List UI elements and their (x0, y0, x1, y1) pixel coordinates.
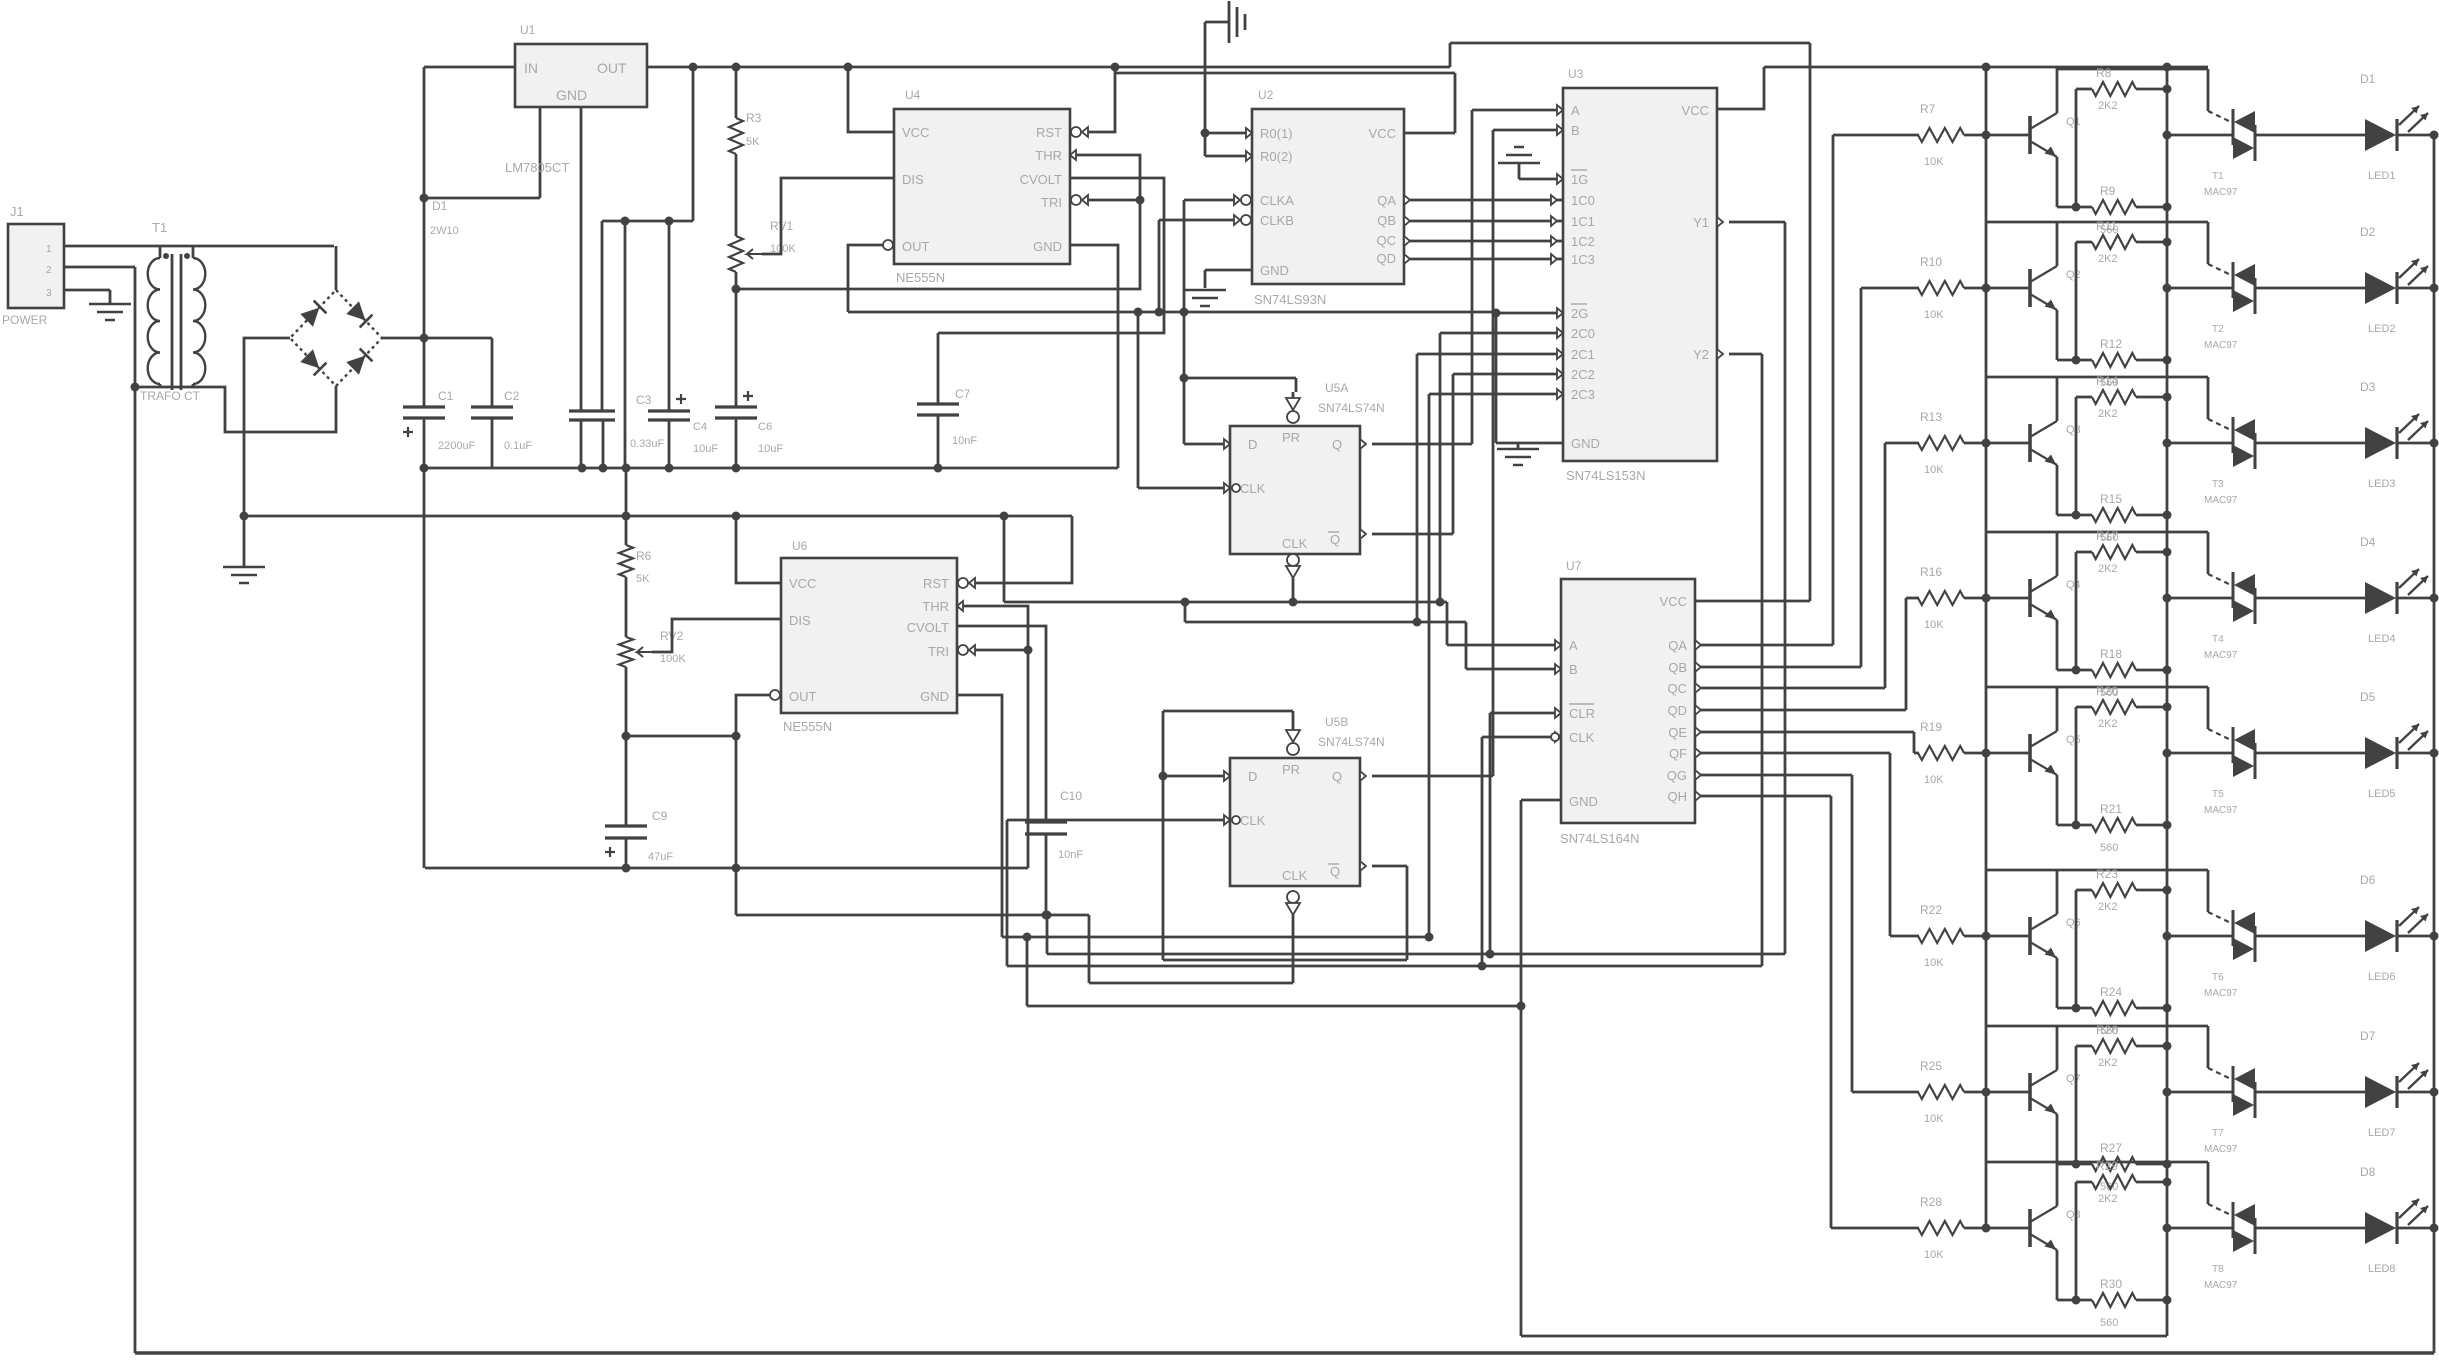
wire bus to triac row 6 (2167, 935, 2233, 938)
svg-text:10K: 10K (1924, 619, 1944, 631)
svg-text:QB: QB (1377, 213, 1396, 228)
junction R8 bus (2163, 85, 2172, 94)
wire OUT U6 (736, 690, 780, 915)
clock line y312 (848, 311, 1496, 314)
wire bus to triac row 8 (2167, 1227, 2233, 1230)
svg-text:10nF: 10nF (1058, 849, 1083, 861)
wire 2C2 (1453, 369, 1563, 379)
resistor R16 base row 4 (1918, 565, 1964, 631)
svg-text:A: A (1571, 103, 1580, 118)
capacitor C9 (605, 736, 673, 868)
transistor Q6 (2030, 914, 2081, 958)
wire emitter row 4 (2057, 620, 2092, 670)
svg-text:R23: R23 (2096, 867, 2118, 881)
wire GND U3 (1496, 442, 1563, 445)
U5A D wire (1184, 439, 1230, 449)
wire collector to gate row 8 (2057, 1162, 2208, 1204)
svg-text:D2: D2 (2360, 225, 2376, 239)
wire collector row 2 (1986, 222, 2057, 266)
wire collector to gate row 3 (2057, 377, 2208, 419)
line y960 (1163, 959, 1407, 962)
svg-text:B: B (1571, 123, 1580, 138)
svg-text:CLK: CLK (1282, 536, 1308, 551)
wire GND U7 (1521, 799, 1561, 802)
wire LED to rail row 6 (2397, 935, 2434, 938)
svg-text:T2: T2 (2212, 324, 2224, 335)
wire collector to gate row 1 (2057, 69, 2208, 111)
junction triac feed row 8 (2163, 1224, 2172, 1233)
wire R23 leads (2076, 890, 2167, 1008)
vertical x1004 (1003, 516, 1006, 602)
resistor R13 base row 3 (1918, 410, 1964, 476)
svg-text:1C1: 1C1 (1571, 214, 1595, 229)
flip-flop U5B box (1230, 758, 1360, 886)
svg-text:R22: R22 (1920, 903, 1942, 917)
svg-text:R13: R13 (1920, 410, 1942, 424)
resistor R25 base row 7 (1918, 1059, 1964, 1125)
wire J1 pin3 to ground (64, 290, 110, 304)
svg-text:2K2: 2K2 (2098, 1193, 2118, 1205)
vertical x1493 Q2 to B (1492, 130, 1495, 776)
junctions on y312 (1134, 308, 1189, 317)
svg-text:D8: D8 (2360, 1165, 2376, 1179)
svg-text:PR: PR (1282, 430, 1300, 445)
wire R11 leads (2076, 242, 2167, 360)
junction TRI-THR (1136, 196, 1145, 205)
timer U6 label (783, 539, 832, 734)
junction R17 bus (2163, 548, 2172, 557)
junction VCC U4 (844, 63, 853, 72)
svg-text:R20: R20 (2096, 684, 2118, 698)
junction triac feed row 1 (2163, 131, 2172, 140)
svg-text:SN74LS153N: SN74LS153N (1566, 468, 1646, 483)
junction R27 bus (2072, 1160, 2172, 1169)
line y966 (1007, 965, 1762, 968)
line y602 (1004, 601, 1447, 604)
svg-text:T4: T4 (2212, 634, 2224, 645)
junction R0 (1201, 129, 1210, 138)
junction x1027 y937 (1023, 933, 1032, 942)
svg-text:LED3: LED3 (2368, 478, 2396, 490)
line y73 (1115, 72, 1455, 75)
transistor Q4 (2030, 576, 2081, 620)
svg-text:100K: 100K (660, 653, 686, 665)
svg-text:Y2: Y2 (1693, 347, 1709, 362)
wire R0(1) (1205, 128, 1252, 138)
wire bridge left to ground rail (244, 338, 290, 567)
wire R10 to base (1964, 287, 2030, 290)
wire QC (1404, 236, 1563, 246)
svg-text:U2: U2 (1258, 88, 1274, 102)
wire collector to gate row 5 (2057, 687, 2208, 729)
junction rail B left (240, 512, 249, 521)
svg-text:CVOLT: CVOLT (907, 620, 949, 635)
wire R29 leads (2076, 1182, 2167, 1300)
junction pot1 bottom (732, 285, 741, 294)
junction LED bus top (2163, 63, 2172, 72)
line y954 (1047, 953, 1785, 956)
wire R12 lead (2136, 359, 2167, 362)
bridge diode lower-left (300, 349, 326, 375)
svg-text:Q: Q (1330, 864, 1340, 879)
wire collector to gate row 2 (2057, 222, 2208, 264)
junction R29 bus (2163, 1178, 2172, 1187)
wire bus to triac row 3 (2167, 442, 2233, 445)
wire y198 to 540 (424, 107, 540, 198)
svg-text:R30: R30 (2100, 1277, 2122, 1291)
svg-text:MAC97: MAC97 (2204, 187, 2238, 198)
LED D5 (2360, 690, 2428, 800)
junction R23 bus (2163, 886, 2172, 895)
triac T4 (2204, 572, 2255, 661)
junction y221 riser (689, 63, 698, 72)
svg-text:CLKB: CLKB (1260, 213, 1294, 228)
svg-text:LED4: LED4 (2368, 633, 2396, 645)
vertical x1205 top (1204, 22, 1207, 156)
junction triac feed row 7 (2163, 1088, 2172, 1097)
svg-text:10nF: 10nF (952, 435, 977, 447)
potentiometer RV1 (729, 219, 796, 272)
svg-text:D: D (1248, 437, 1257, 452)
regulator pin labels (524, 60, 627, 103)
junction at 424 338 (420, 334, 429, 343)
gate lead row 4 (2208, 574, 2233, 586)
svg-text:R19: R19 (1920, 720, 1942, 734)
resistor R10 base row 2 (1918, 255, 1964, 321)
svg-text:C10: C10 (1060, 789, 1082, 803)
svg-text:D1: D1 (2360, 72, 2376, 86)
triac T2 (2204, 262, 2255, 351)
line y983 (1089, 982, 1293, 985)
svg-text:U6: U6 (792, 539, 808, 553)
U5B PR symbol (1286, 730, 1300, 755)
junction x1047 y915 (1043, 911, 1052, 920)
junction 2C3 y937 (1425, 933, 1434, 942)
resistor R17 collector row 4 (2092, 529, 2136, 575)
gate lead row 6 (2208, 912, 2233, 924)
wire emitter row 2 (2057, 310, 2092, 360)
ground at counter (1184, 290, 1226, 306)
wire CVOLT U6 (957, 626, 1046, 822)
junction LED rail row 7 (2430, 1088, 2439, 1097)
svg-text:CLK: CLK (1569, 730, 1595, 745)
vertical x1521 GND (1520, 800, 1523, 1336)
wire row 1 base feed (1833, 134, 1919, 137)
svg-text:VCC: VCC (789, 576, 816, 591)
ground rail A (424, 467, 1118, 470)
capacitor C2 (471, 338, 532, 468)
resistor R12 emitter row 2 (2092, 337, 2136, 389)
wire A U3 (1472, 105, 1563, 115)
bridge diode lower-right (346, 349, 372, 375)
junction triac feed row 2 (2163, 284, 2172, 293)
U5B PR wire (1163, 711, 1293, 730)
wire row 3 base feed (1885, 442, 1919, 445)
U5B D wire (1163, 771, 1230, 781)
line y915 (736, 914, 1089, 917)
resistor R3 lead (735, 154, 738, 236)
svg-text:THR: THR (922, 599, 949, 614)
timer U6 pin labels (789, 576, 949, 704)
resistor R27 emitter row 7 (2092, 1141, 2136, 1193)
rail B junctions (622, 512, 1009, 521)
wire LED to rail row 2 (2397, 287, 2434, 290)
junction x1163 D (1159, 772, 1168, 781)
wire emitter row 3 (2057, 465, 2092, 515)
wire B U3 (1493, 125, 1563, 135)
svg-text:R7: R7 (1920, 102, 1936, 116)
svg-text:MAC97: MAC97 (2204, 340, 2238, 351)
wire triac to LED row 8 (2255, 1227, 2365, 1230)
wire J1 pin2 (64, 267, 135, 387)
wire bridge top to AC rail (335, 246, 338, 290)
svg-text:U3: U3 (1568, 67, 1584, 81)
svg-text:Q8: Q8 (2066, 1209, 2081, 1221)
svg-text:3: 3 (46, 288, 52, 299)
wire VCC U4 (848, 67, 894, 132)
wire RST U4 (1071, 67, 1115, 137)
wire emitter row 7 (2057, 1114, 2092, 1164)
junction C1 rail A (420, 464, 429, 473)
svg-text:R0(1): R0(1) (1260, 126, 1293, 141)
bridge label (430, 199, 459, 237)
junction LED rail row 8 (2430, 1224, 2439, 1233)
counter U2 label (1254, 88, 1326, 307)
regulator GND lead (580, 107, 583, 411)
resistor R21 emitter row 5 (2092, 802, 2136, 854)
junction triac feed row 6 (2163, 932, 2172, 941)
triac T1 (2204, 109, 2255, 198)
line y937 (1002, 936, 1429, 939)
svg-text:2W10: 2W10 (430, 225, 459, 237)
svg-text:2200uF: 2200uF (438, 440, 476, 452)
junction bus top (1982, 63, 1991, 72)
svg-text:LED1: LED1 (2368, 170, 2396, 182)
junction LED rail row 6 (2430, 932, 2439, 941)
wire TRI2 tie (958, 645, 1028, 655)
resistor R8 collector row 1 (2092, 66, 2136, 112)
wire THR2 loop (957, 601, 1028, 868)
wire R7 to base (1964, 134, 2030, 137)
junction R20 bus (2163, 703, 2172, 712)
LED bus x2167 (2166, 67, 2169, 1336)
junction at x135 y387 (131, 383, 140, 392)
ground up at 1G (1498, 147, 1540, 163)
wire collector row 5 (1986, 687, 2057, 731)
wire triac to LED row 7 (2255, 1091, 2365, 1094)
junction y602 (1181, 598, 1445, 607)
wire triac to LED row 5 (2255, 752, 2365, 755)
wire secondary bottom to bridge (193, 386, 336, 432)
svg-text:LED8: LED8 (2368, 1263, 2396, 1275)
U5A CLR symbol (1286, 554, 1300, 578)
svg-text:10K: 10K (1924, 1113, 1944, 1125)
svg-text:2C3: 2C3 (1571, 387, 1595, 402)
wire collector row 3 (1986, 377, 2057, 421)
wire bus to triac row 2 (2167, 287, 2233, 290)
svg-text:5K: 5K (636, 573, 650, 585)
wire collector row 6 (1986, 870, 2057, 914)
svg-text:2K2: 2K2 (2098, 1057, 2118, 1069)
resistor R9 emitter row 1 (2092, 184, 2136, 236)
junction bus row 1 (1982, 131, 1991, 140)
svg-text:U4: U4 (905, 88, 921, 102)
transformer T1 secondary (193, 246, 205, 387)
svg-text:R10: R10 (1920, 255, 1942, 269)
vertical x1785 Y1 (1784, 222, 1787, 954)
svg-text:R15: R15 (2100, 492, 2122, 506)
bridge diode upper-left (300, 301, 326, 327)
svg-text:CLK: CLK (1240, 481, 1266, 496)
ground at J1 (89, 304, 131, 320)
U5A Qbar wire (1360, 374, 1453, 539)
svg-text:1C3: 1C3 (1571, 252, 1595, 267)
svg-text:2K2: 2K2 (2098, 100, 2118, 112)
svg-text:2C0: 2C0 (1571, 326, 1595, 341)
vertical x1496 (1495, 312, 1498, 443)
junction bus row 8 (1982, 1224, 1991, 1233)
svg-text:Q: Q (1330, 532, 1340, 547)
wire CLR U7 (1490, 708, 1561, 954)
wire CLKB (1159, 215, 1251, 225)
flip-flop U5A box (1230, 426, 1360, 554)
triac T5 (2204, 727, 2255, 816)
svg-text:U7: U7 (1566, 559, 1582, 573)
resistor R18 emitter row 4 (2092, 647, 2136, 699)
svg-text:QG: QG (1667, 768, 1687, 783)
wire R19 to base (1964, 752, 2030, 755)
vertical x626 upper (624, 221, 627, 468)
resistor R30 emitter row 8 (2092, 1277, 2136, 1329)
vertical x1163 (1162, 711, 1165, 960)
svg-text:C3: C3 (636, 393, 652, 407)
triac T7 (2204, 1066, 2255, 1155)
svg-text:DIS: DIS (902, 172, 924, 187)
wire 2C1 (1417, 349, 1563, 622)
junction LED rail row 1 (2430, 131, 2439, 140)
wire emitter row 5 (2057, 775, 2092, 825)
bridge rectifier D1 outline (290, 290, 382, 386)
wire R15 lead (2136, 514, 2167, 517)
svg-text:LED6: LED6 (2368, 971, 2396, 983)
wire QA feed row 1 (1695, 135, 1833, 650)
resistor R14 collector row 3 (2092, 374, 2136, 420)
svg-text:QH: QH (1668, 789, 1688, 804)
svg-text:10K: 10K (1924, 1249, 1944, 1261)
timer U4 box (894, 109, 1070, 264)
junction bus row 7 (1982, 1088, 1991, 1097)
wire QG feed row 7 (1695, 770, 1852, 1092)
gate lead row 5 (2208, 729, 2233, 741)
svg-text:Q: Q (1332, 769, 1342, 784)
svg-text:SN74LS164N: SN74LS164N (1560, 831, 1640, 846)
svg-text:Q6: Q6 (2066, 917, 2081, 929)
wire collector to gate row 4 (2057, 532, 2208, 574)
svg-text:MAC97: MAC97 (2204, 805, 2238, 816)
wire R9 lead (2136, 206, 2167, 209)
gate lead row 8 (2208, 1204, 2233, 1216)
svg-text:DIS: DIS (789, 613, 811, 628)
U5A Q wire (1360, 439, 1472, 449)
svg-text:560: 560 (2100, 1317, 2118, 1329)
svg-text:Q4: Q4 (2066, 579, 2081, 591)
svg-text:PR: PR (1282, 762, 1300, 777)
wire 1G to ground (1519, 163, 1563, 184)
LED D3 (2360, 380, 2428, 490)
resistor R11 collector row 2 (2092, 219, 2136, 265)
U5B Qbar wire (1360, 861, 1407, 960)
svg-text:LED5: LED5 (2368, 788, 2396, 800)
svg-text:R0(2): R0(2) (1260, 149, 1293, 164)
potentiometer RV2 (619, 629, 686, 667)
mux U3 pin labels (1571, 103, 1709, 451)
svg-text:560: 560 (2100, 842, 2118, 854)
svg-text:POWER: POWER (2, 313, 48, 327)
junction R26 bus (2163, 1042, 2172, 1051)
svg-text:D1: D1 (432, 199, 448, 213)
junction LED rail row 2 (2430, 284, 2439, 293)
svg-text:RST: RST (923, 576, 949, 591)
svg-text:RST: RST (1036, 125, 1062, 140)
wire GND U2 (1205, 270, 1252, 288)
svg-text:R28: R28 (1920, 1195, 1942, 1209)
timer U6 box (781, 558, 957, 713)
wire collector row 1 (2056, 68, 2059, 113)
wire R28 to base (1964, 1227, 2030, 1230)
wire collector to gate row 6 (2057, 870, 2208, 912)
wire THR loop (736, 150, 1140, 289)
svg-text:D5: D5 (2360, 690, 2376, 704)
svg-text:SN74LS74N: SN74LS74N (1318, 735, 1385, 749)
vertical x1184 (1183, 200, 1186, 444)
svg-text:R14: R14 (2096, 374, 2118, 388)
wire R20 leads (2076, 707, 2167, 825)
wire emitter row 6 (2057, 958, 2092, 1008)
top rail y67 (647, 66, 1450, 69)
svg-text:2: 2 (46, 265, 52, 276)
junction LED rail row 4 (2430, 594, 2439, 603)
junction R14 bus (2163, 393, 2172, 402)
svg-text:1G: 1G (1571, 172, 1588, 187)
svg-text:T3: T3 (2212, 479, 2224, 490)
svg-text:C2: C2 (504, 389, 520, 403)
svg-text:QC: QC (1377, 233, 1397, 248)
svg-text:T6: T6 (2212, 972, 2224, 983)
svg-text:Q2: Q2 (2066, 269, 2081, 281)
capacitor C10 (1025, 789, 1083, 915)
wire QH feed row 8 (1695, 791, 1831, 1228)
shift register U7 box (1561, 579, 1695, 823)
resistor R22 base row 6 (1918, 903, 1964, 969)
resistor R20 collector row 5 (2092, 684, 2136, 730)
svg-text:U1: U1 (520, 23, 536, 37)
transistor Q8 (2030, 1206, 2081, 1250)
wire row 7 base feed (1852, 1091, 1919, 1094)
svg-text:5K: 5K (746, 136, 760, 148)
rail y67 right (1764, 66, 2208, 69)
svg-text:OUT: OUT (597, 60, 627, 76)
resistor R28 base row 8 (1918, 1195, 1964, 1261)
svg-text:MAC97: MAC97 (2204, 1144, 2238, 1155)
wire bus to triac row 5 (2167, 752, 2233, 755)
svg-text:10K: 10K (1924, 309, 1944, 321)
wire triac to LED row 6 (2255, 935, 2365, 938)
wire regulator IN (424, 66, 515, 69)
svg-text:2K2: 2K2 (2098, 253, 2118, 265)
wire bus to triac row 4 (2167, 597, 2233, 600)
svg-text:2K2: 2K2 (2098, 563, 2118, 575)
junction bus row 6 (1982, 932, 1991, 941)
